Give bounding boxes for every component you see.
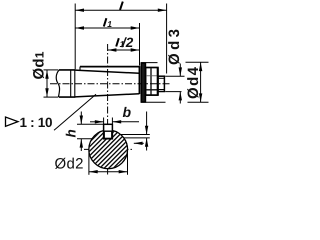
wire: d4 dimension line [200, 62, 202, 102]
node W: arrowheads d2 [89, 170, 98, 173]
node I: nut facet line [150, 68, 152, 95]
wire: d3 dimension line upper [179, 64, 181, 77]
wire: cone bottom generatrix [75, 94, 139, 97]
node N: arrowheads dimension l1 [75, 26, 84, 29]
wire: b extension left [103, 118, 105, 125]
svg-text:Ød3: Ød3 [166, 29, 183, 65]
wire: main horizontal centerline [50, 83, 170, 85]
wire: taper leader line [54, 94, 96, 130]
node G: washer [141, 63, 145, 102]
node I2: nut right face thick edge [157, 68, 159, 96]
wire: d1 extension top [44, 69, 59, 71]
node F: cone end face [138, 66, 140, 94]
node L: key cross-section in slot [104, 124, 113, 139]
svg-text:h: h [64, 129, 79, 137]
wire: slot right wall [111, 131, 113, 139]
wire: d3 extension bottom [165, 91, 181, 93]
node Q: arrowheads d3 [179, 67, 182, 76]
wire: d1 extension bottom [44, 96, 59, 98]
wire: nut chamfer bottom [146, 89, 158, 91]
wire: cylinder bottom edge [59, 96, 76, 98]
wire: thread minor diameter top [158, 77, 164, 79]
label: l [120, 2, 123, 10]
node K: section circle with hatching [89, 130, 128, 169]
svg-text:Ød1: Ød1 [31, 51, 48, 79]
svg-text:1: 1 [107, 19, 112, 29]
wire: vertical centerline through keyway and section [107, 44, 109, 175]
wire: b dimension line right [112, 121, 139, 123]
wire: dimension line l1 [75, 27, 139, 29]
wire: d3 extension top [165, 75, 184, 77]
node U: arrowheads t [145, 126, 148, 135]
wire: h extension bottom [77, 138, 104, 140]
node O: arrowheads dimension l1/2 [108, 48, 117, 51]
node M: arrowheads dimension l [75, 9, 84, 12]
node X: taper symbol triangle [6, 117, 19, 126]
wire: d4 extension bottom [141, 101, 166, 103]
label: l1 [104, 18, 107, 26]
wire: thread minor diameter bottom [158, 89, 164, 91]
svg-text:Ød4: Ød4 [185, 66, 202, 99]
node T: arrowheads h [80, 116, 83, 125]
node D: key top edge on taper [80, 66, 140, 68]
wire: t dimension arrow lines [146, 112, 148, 135]
svg-text:Ød2: Ød2 [55, 155, 84, 172]
wire: t leader arrow line [134, 142, 144, 144]
wire: extension line left (taper start) [74, 4, 76, 70]
wire: dimension line l [75, 9, 166, 11]
wire: cylinder top edge [59, 69, 76, 71]
wire: extension line taper end [139, 23, 141, 66]
wire: d2 extension right [127, 151, 129, 175]
wire: key bottom thick line [104, 138, 113, 140]
wire: d3 dimension line lower [179, 92, 181, 104]
label: l1/2 [116, 38, 119, 46]
wire: b extension right [111, 118, 113, 125]
node H: nut body [146, 68, 158, 96]
wire: t extension lower [114, 137, 150, 139]
wire: cone top generatrix [75, 70, 139, 73]
wire: d2 dimension line [89, 171, 128, 173]
svg-text:/2: /2 [121, 35, 134, 50]
node E: key left end edge [79, 67, 81, 71]
wire: d4 extension top [141, 62, 158, 64]
node S: arrowheads b [95, 120, 104, 123]
wire: t extension upper [114, 134, 150, 136]
wire: d2 extension left [88, 151, 90, 175]
node A: shaft break line [56, 70, 59, 97]
wire: h extension top [77, 123, 103, 125]
node B: shoulder line 1 [70, 70, 72, 97]
node R: arrowheads d4 [199, 62, 202, 71]
wire: key/slot surface line [104, 130, 113, 132]
wire: slot left wall [103, 131, 105, 139]
node J: threaded end outline [158, 76, 165, 91]
wire: dimension line l1/2 [108, 49, 140, 51]
wire: nut chamfer top [146, 75, 158, 77]
wire: extension line shaft right end [166, 4, 168, 74]
node P: arrowheads d1 [45, 70, 48, 79]
wire: h dimension arrow lines [80, 112, 82, 125]
svg-text:b: b [123, 104, 132, 120]
wire: d1 dimension line [46, 70, 48, 97]
svg-text:1 : 10: 1 : 10 [20, 115, 53, 130]
node V: t leader arrowhead [134, 142, 143, 145]
wire: section circle horizontal centerline [84, 148, 134, 150]
node C: shoulder line 2 [74, 70, 76, 97]
wire: b dimension line left [90, 121, 104, 123]
